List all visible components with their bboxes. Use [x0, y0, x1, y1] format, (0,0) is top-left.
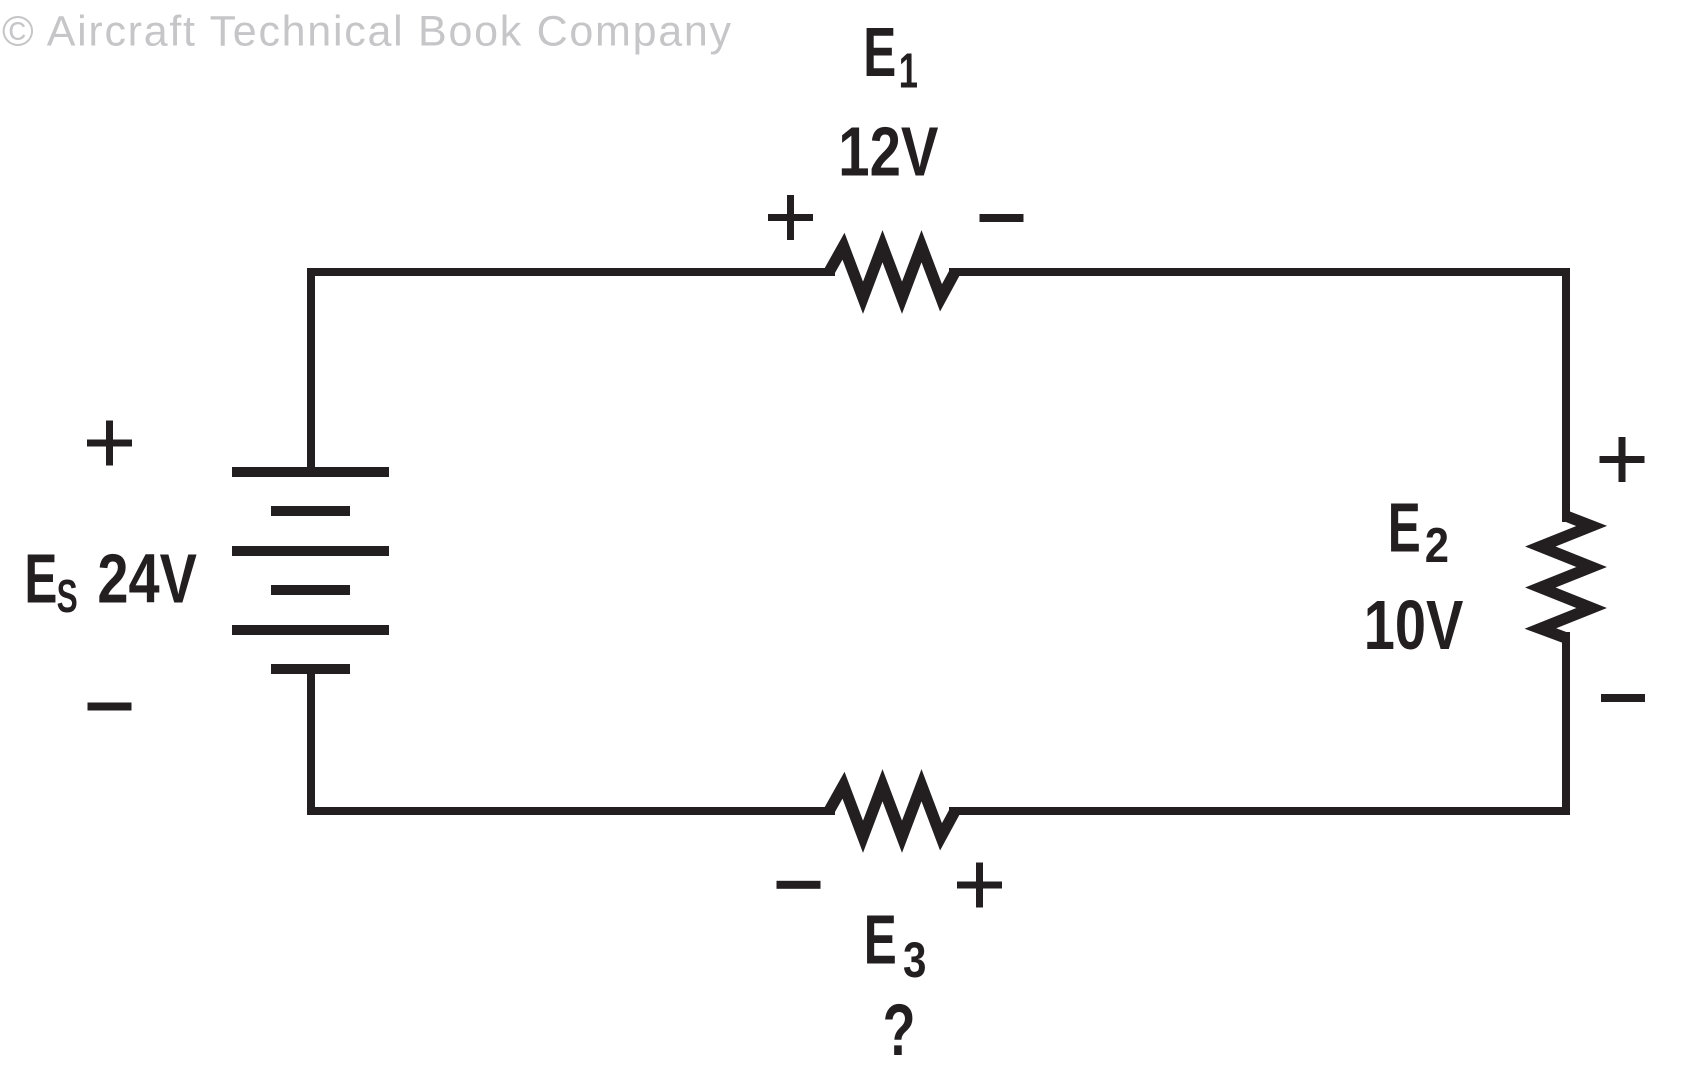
resistor E3 zigzag — [829, 785, 955, 837]
svg-text:S: S — [57, 571, 78, 622]
minus sign E3 left — [777, 881, 821, 889]
wire bottom-right: E2 down to corner and left to E3 — [949, 632, 1566, 811]
plus sign E3 right — [957, 863, 1002, 908]
svg-text:3: 3 — [903, 932, 926, 988]
minus sign E1 right — [980, 214, 1024, 222]
battery ES plate long 2 — [232, 546, 389, 556]
svg-text:24V: 24V — [97, 541, 197, 618]
wire top-left: battery + terminal up and across to E1 — [311, 272, 835, 474]
wire top-right: E1 to corner down to E2 — [949, 272, 1566, 522]
resistor E2 zigzag — [1540, 516, 1591, 638]
svg-text:12V: 12V — [838, 114, 938, 191]
minus sign E2 bottom — [1601, 694, 1645, 702]
svg-text:1: 1 — [899, 43, 918, 99]
svg-text:?: ? — [883, 989, 916, 1071]
wire bottom-left: E3 left and up to battery - terminal — [311, 667, 835, 811]
battery ES plate short 1 — [271, 506, 350, 516]
minus sign battery — [88, 703, 132, 711]
battery ES plate long 1 (+) — [232, 467, 389, 477]
resistor E1 zigzag — [829, 246, 955, 298]
battery ES plate long 3 — [232, 625, 389, 635]
battery ES plate short 3 (-) — [271, 664, 350, 674]
svg-text:10V: 10V — [1364, 587, 1464, 664]
svg-text:E: E — [864, 900, 897, 978]
svg-text:© Aircraft Technical Book Comp: © Aircraft Technical Book Company — [2, 8, 732, 56]
plus sign battery — [87, 421, 132, 466]
svg-text:2: 2 — [1425, 518, 1449, 573]
battery ES plate short 2 — [271, 585, 350, 595]
svg-text:E: E — [24, 539, 57, 617]
plus sign E1 left — [768, 195, 813, 240]
svg-text:E: E — [1388, 488, 1421, 566]
svg-text:E: E — [863, 13, 896, 91]
plus sign E2 top — [1600, 437, 1645, 482]
